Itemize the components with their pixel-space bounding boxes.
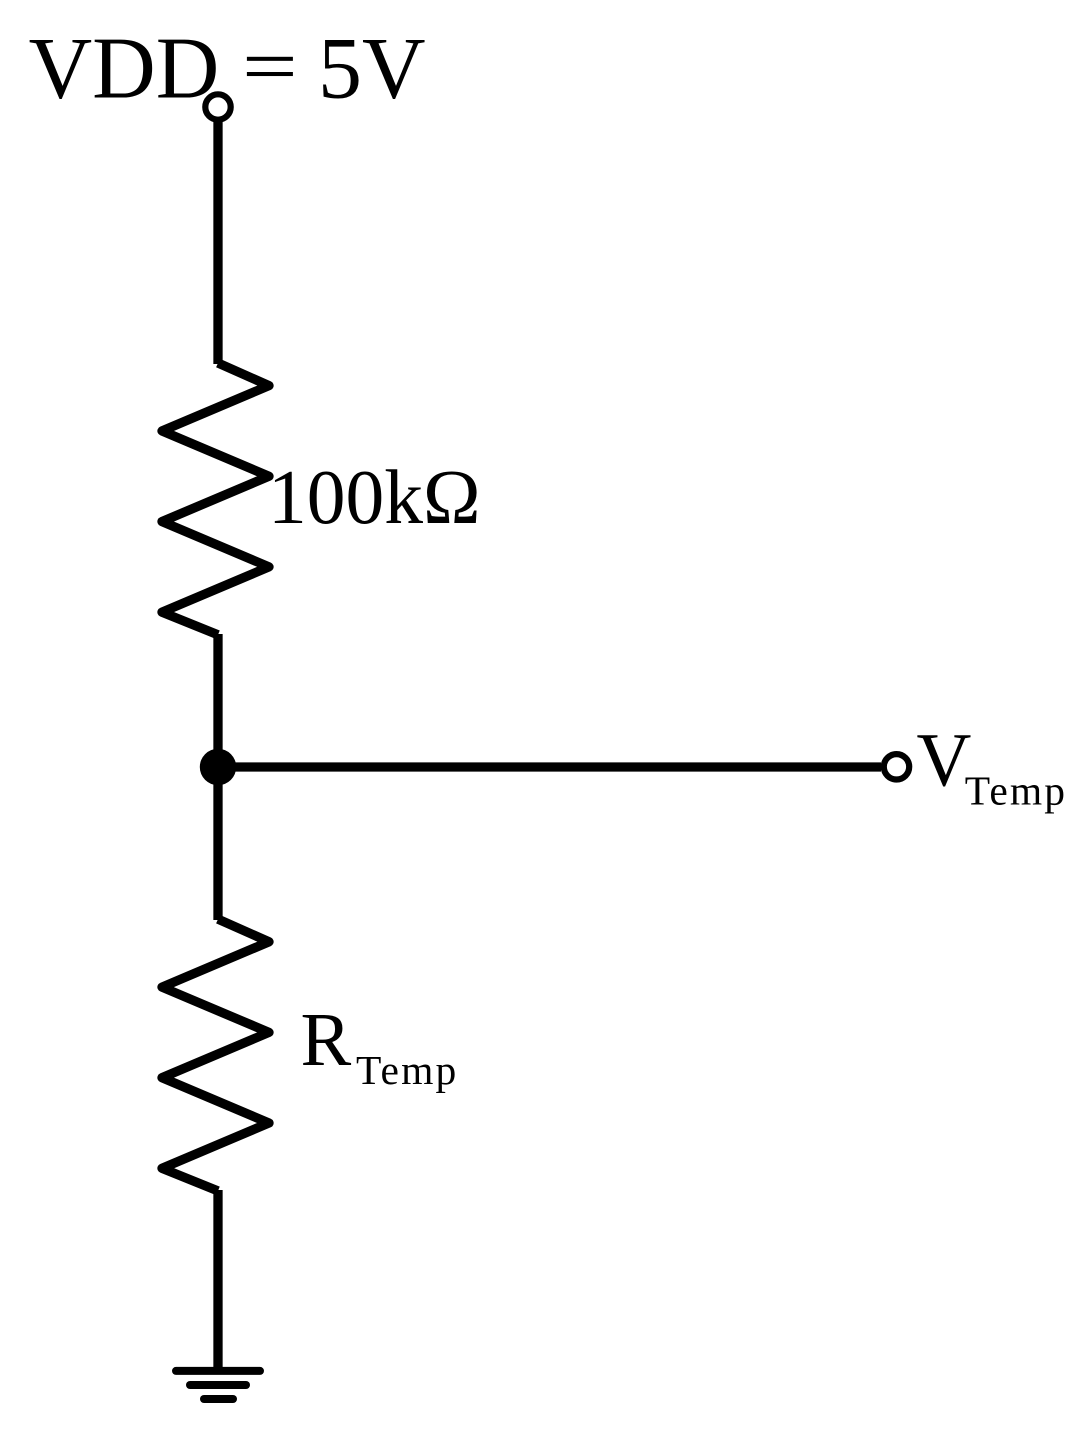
svg-text:Temp: Temp bbox=[965, 767, 1067, 813]
svg-text:100kΩ: 100kΩ bbox=[268, 454, 481, 540]
ground symbol bbox=[176, 1371, 260, 1399]
wire from VDD terminal to resistor R1 bbox=[213, 121, 222, 364]
svg-text:VDD: VDD bbox=[29, 20, 220, 117]
equals sign of VDD = 5V bbox=[247, 57, 293, 61]
svg-text:R: R bbox=[301, 998, 352, 1082]
resistor R2 RTemp zigzag bbox=[162, 919, 269, 1191]
svg-text:Temp: Temp bbox=[356, 1047, 458, 1093]
wire from junction to VTemp terminal bbox=[218, 762, 881, 771]
svg-text:V: V bbox=[917, 719, 972, 803]
power terminal VDD bbox=[205, 94, 230, 119]
wire from R1 bottom through junction to resistor R2 bbox=[213, 634, 222, 920]
svg-text:5V: 5V bbox=[318, 20, 426, 117]
resistor R1 100k zigzag bbox=[162, 363, 269, 635]
node junction dot bbox=[200, 749, 236, 785]
output terminal VTemp bbox=[884, 754, 909, 779]
wire from R2 bottom to ground bbox=[213, 1190, 222, 1369]
